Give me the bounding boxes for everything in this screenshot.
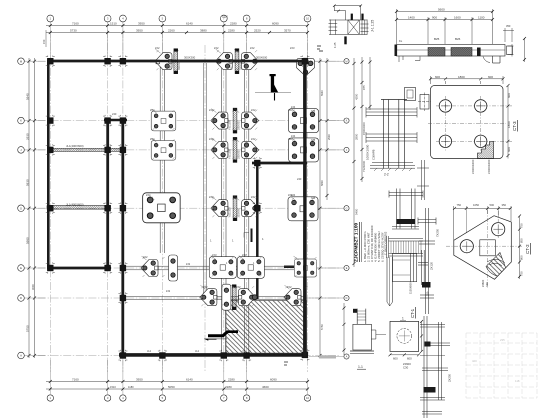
secondary col line [204, 45, 206, 372]
notch wall vertical [256, 163, 259, 299]
top-right beam detail [395, 8, 527, 64]
svg-text:ZJ2: ZJ2 [251, 137, 256, 141]
svg-text:1050: 1050 [473, 203, 479, 207]
svg-text:ZJ4: ZJ4 [291, 135, 296, 138]
wall pier section row A col 4 [174, 49, 178, 74]
pile cap ZJ1 row D [222, 284, 231, 310]
svg-text:5600: 5600 [438, 8, 445, 12]
column block 3 [118, 56, 127, 67]
notch wall horizontal [252, 162, 307, 165]
svg-text:1510: 1510 [110, 385, 116, 389]
svg-text:ZJ600X200: ZJ600X200 [471, 159, 475, 174]
column block 15 [118, 262, 127, 273]
dim ticks left [28, 60, 37, 357]
right dim [518, 215, 521, 280]
svg-text:150: 150 [42, 39, 46, 44]
beam row E [124, 266, 306, 270]
base [372, 162, 413, 164]
section C (left of pentagon) [418, 208, 440, 314]
pile cap ZJ2 row J col 5 [211, 141, 228, 158]
svg-text:350: 350 [506, 24, 511, 28]
svg-text:2X250: 2X250 [448, 373, 452, 382]
left dim lines [28, 58, 30, 358]
wall pier section row A col 5-6 [235, 49, 239, 74]
svg-text:6090: 6090 [270, 378, 277, 382]
pile cap ZJ4 row K col 10 [289, 109, 319, 133]
column block 8 [103, 144, 112, 155]
column block 7 [46, 144, 55, 155]
inner wall V2 [121, 119, 124, 357]
svg-text:YBZ1500: YBZ1500 [228, 119, 231, 130]
svg-text:ZJ2: ZJ2 [251, 195, 256, 199]
svg-text:300X900: 300X900 [237, 207, 240, 217]
pile cap ZJ4 row J col 10 [289, 138, 319, 162]
column block 1 [46, 56, 55, 67]
pile cap ZJ2 row A col 10 corner [297, 58, 315, 76]
svg-text:850: 850 [520, 238, 524, 243]
column block 22 [300, 56, 309, 67]
top dim lines [46, 25, 308, 27]
svg-text:ZJ3: ZJ3 [290, 46, 295, 50]
svg-text:JL1(400X600): JL1(400X600) [66, 144, 84, 148]
pile cap ZJ2 row G col 6 [242, 200, 259, 217]
bottom dim lines [46, 381, 309, 383]
column block 2 [103, 56, 112, 67]
svg-text:5980: 5980 [25, 237, 29, 244]
svg-text:3950: 3950 [136, 378, 143, 382]
grid row B [38, 120, 340, 122]
top extension lines from bubbles [50, 22, 307, 58]
left bubbles [18, 58, 25, 65]
right dim lines [319, 58, 321, 358]
section G (left column, between CT3 and CT2 zone) [417, 160, 429, 200]
svg-text:J-1 1:25: J-1 1:25 [371, 20, 375, 32]
dims around [429, 76, 510, 159]
svg-text:5830: 5830 [25, 179, 29, 186]
svg-text:YBZ1500: YBZ1500 [228, 148, 231, 159]
chords [329, 19, 367, 21]
pile cap ZJ4 row G col 4 [143, 193, 181, 223]
notch wall lower horizontal [284, 266, 305, 269]
column block 14 [103, 262, 112, 273]
svg-text:600: 600 [435, 75, 440, 79]
top bubbles [47, 15, 54, 22]
pile cap ZJ2 row A col 5 [215, 53, 232, 70]
CT-2 top dimension row [453, 203, 512, 240]
svg-text:1-1: 1-1 [358, 365, 363, 369]
svg-text:7160: 7160 [72, 378, 79, 382]
svg-text:KL: KL [399, 39, 403, 43]
beam F (beam-column joint section) [387, 236, 424, 258]
svg-text:ZJ2: ZJ2 [236, 285, 241, 289]
wall pier section row D [232, 285, 236, 310]
svg-text:300X900: 300X900 [239, 60, 242, 70]
grid row A [38, 60, 340, 62]
svg-text:YBZ1500: YBZ1500 [228, 207, 231, 218]
svg-text:300X900: 300X900 [237, 120, 240, 130]
svg-text:B25: B25 [434, 37, 440, 41]
svg-text:3000: 3000 [31, 284, 35, 290]
svg-text:300X900: 300X900 [237, 149, 240, 159]
svg-text:5050: 5050 [168, 385, 175, 389]
svg-text:E: E [20, 266, 22, 270]
svg-text:600: 600 [407, 357, 412, 361]
svg-text:1510: 1510 [110, 22, 117, 26]
svg-text:YBZ1500: YBZ1500 [169, 59, 172, 70]
svg-text:G: G [20, 206, 22, 210]
svg-text:JL2: JL2 [262, 350, 267, 353]
svg-text:CT-1: CT-1 [410, 308, 415, 318]
label for J1 [333, 20, 375, 48]
svg-text:CT-2: CT-2 [525, 244, 530, 254]
svg-text:A: A [20, 354, 22, 358]
bubble numerals [20, 17, 348, 401]
detail J1 X-brace (top middle) [317, 4, 369, 51]
svg-text:118: 118 [515, 379, 520, 383]
svg-text:600: 600 [507, 147, 511, 152]
grid col 7 [307, 30, 309, 372]
gray stub near plan bottom right [284, 355, 336, 365]
svg-text:2930: 2930 [327, 134, 331, 140]
svg-text:300X900: 300X900 [178, 60, 181, 70]
beam x205 [203, 63, 206, 296]
right bubbles [344, 59, 349, 64]
svg-text:ZJCPMBZT 1:100: ZJCPMBZT 1:100 [354, 222, 360, 262]
inner wall V1 [106, 119, 109, 270]
section arrow top [255, 74, 291, 101]
right wall [303, 60, 306, 357]
svg-text:C30: C30 [485, 282, 489, 287]
svg-text:ZJ2: ZJ2 [214, 46, 219, 50]
grid row E [38, 267, 340, 269]
svg-text:7X250: 7X250 [436, 228, 440, 237]
svg-text:2X120: 2X120 [430, 261, 434, 270]
column block 24 [253, 157, 262, 168]
top wall [47, 60, 309, 63]
column block 13 [46, 262, 55, 273]
svg-text:235: 235 [500, 338, 505, 342]
svg-text:500: 500 [490, 203, 495, 207]
column below beam F [387, 250, 430, 306]
svg-text:1180: 1180 [128, 385, 134, 389]
centerlines [446, 210, 523, 288]
svg-text:ZJ2: ZJ2 [186, 263, 191, 266]
room top hatched beam [47, 206, 111, 209]
tall section A [366, 100, 418, 177]
svg-text:ZJ2: ZJ2 [143, 255, 148, 259]
svg-text:ZJ600: ZJ600 [481, 279, 485, 287]
section D (bottom-left tall section) [420, 316, 452, 418]
svg-text:1000X1000: 1000X1000 [366, 144, 370, 160]
dim lines above [395, 9, 526, 62]
pile cap ZJ2 row A col 4 [155, 53, 172, 70]
svg-text:6140: 6140 [186, 378, 193, 382]
wall stub [251, 229, 253, 243]
svg-text:JL2: JL2 [147, 350, 152, 353]
svg-text:240: 240 [112, 112, 117, 116]
hatched beam row C left [50, 148, 108, 151]
column block 5 [103, 115, 112, 126]
svg-text:420: 420 [472, 359, 477, 363]
pile cap ZJ2 row D col 6 [238, 289, 255, 306]
small column squares S1 S2 [405, 88, 432, 112]
grid col 1 [49, 30, 51, 372]
svg-text:JL2: JL2 [195, 350, 200, 353]
svg-text:ZJ600X200: ZJ600X200 [487, 159, 491, 174]
notes text block (rotated) [354, 222, 388, 262]
V1-V2 tie wall [104, 119, 127, 122]
column block 18 [158, 350, 167, 361]
dim ticks right [319, 60, 329, 357]
svg-text:D: D [346, 297, 348, 300]
svg-text:5940: 5940 [320, 90, 324, 96]
svg-text:5940: 5940 [25, 93, 29, 100]
pile cap ZJ4 row J col 4 [151, 140, 176, 160]
svg-text:1: 1 [402, 317, 404, 321]
svg-text:300X600: 300X600 [256, 56, 268, 60]
svg-text:1800: 1800 [458, 75, 465, 79]
svg-text:300X300: 300X300 [184, 56, 196, 60]
left wall [47, 60, 50, 270]
svg-text:900: 900 [432, 16, 437, 20]
svg-text:600: 600 [393, 357, 398, 361]
svg-text:2280: 2280 [228, 378, 235, 382]
svg-text:2260: 2260 [168, 29, 175, 33]
column block 19 [219, 350, 228, 361]
pile cap ZJ2 row K col 5 [211, 112, 228, 129]
svg-text:5750: 5750 [25, 325, 29, 332]
svg-text:3950: 3950 [136, 29, 143, 33]
svg-text:4200: 4200 [354, 93, 358, 100]
pile cap ZJ4 row G col 10 [288, 197, 318, 221]
column block 23 [253, 203, 262, 214]
svg-text:240: 240 [297, 177, 302, 181]
beam row F [124, 296, 306, 299]
stair hatch corner [478, 142, 494, 159]
svg-text:CT-3: CT-3 [512, 121, 517, 131]
column block 16 [118, 292, 127, 303]
svg-text:800: 800 [520, 255, 524, 260]
column block 17 [118, 350, 127, 361]
column block 12 [118, 203, 127, 214]
X box [348, 20, 359, 34]
beam x162 [160, 63, 164, 253]
svg-text:3570: 3570 [284, 29, 291, 33]
svg-text:M: M [346, 60, 348, 63]
CT-1 square with circle [389, 307, 424, 370]
svg-text:350: 350 [502, 203, 507, 207]
svg-text:975: 975 [362, 85, 366, 90]
pile cap ZJ2 row D col 5a [200, 289, 217, 306]
column block 20 [242, 350, 251, 361]
dim ticks bottom [49, 380, 309, 391]
pile cap ZJ3 row E col 10 [294, 259, 317, 277]
svg-text:3880: 3880 [200, 29, 207, 33]
svg-text:2800: 2800 [354, 133, 358, 140]
section B [389, 189, 423, 230]
beam x246.5 [244, 63, 248, 354]
column block 6 [118, 115, 127, 126]
pile cap ZJ4 row K col 4 [151, 111, 176, 131]
svg-text:5120: 5120 [222, 15, 228, 19]
pile cap ZJ2 row D col 10 [284, 289, 301, 306]
svg-text:ZJ2: ZJ2 [250, 46, 255, 50]
CT-3 big pile cap plan [428, 75, 518, 174]
right wall over caps [303, 60, 306, 357]
svg-text:2-2: 2-2 [384, 173, 389, 177]
hatched beam row D left (room top is wall) [110, 148, 123, 151]
pile cap ZJ1 row E [169, 255, 178, 281]
svg-text:ZJ2: ZJ2 [287, 285, 292, 289]
column block 9 [118, 144, 127, 155]
svg-text:5400: 5400 [354, 208, 358, 215]
svg-text:2280: 2280 [230, 22, 237, 26]
grid col 3 [122, 30, 124, 372]
svg-text:600: 600 [488, 75, 493, 79]
svg-text:ZJ3: ZJ3 [212, 253, 217, 257]
svg-text:1400: 1400 [408, 16, 415, 20]
svg-text:5830: 5830 [320, 180, 324, 186]
right ladder [361, 20, 363, 35]
svg-text:2280: 2280 [228, 29, 235, 33]
svg-text:ZJ2: ZJ2 [203, 285, 208, 289]
pile cap ZJ2 row K col 6 [242, 112, 259, 129]
column block 4 [46, 115, 55, 126]
beam x223 [222, 63, 226, 354]
svg-text:ZJ3: ZJ3 [242, 253, 247, 257]
grid row C [38, 149, 340, 151]
svg-text:750: 750 [520, 223, 524, 228]
grid col 6 [246, 30, 248, 372]
pile cap ZJ3 row E col 6 [237, 257, 264, 279]
grid col 2 [107, 30, 109, 372]
svg-text:B26: B26 [455, 37, 461, 41]
svg-text:750: 750 [520, 271, 524, 276]
svg-text:JL1(400X600): JL1(400X600) [66, 203, 84, 207]
svg-text:2280: 2280 [225, 385, 232, 389]
svg-text:ZJ4: ZJ4 [291, 194, 296, 197]
svg-text:1800: 1800 [507, 121, 511, 128]
column block 10 [46, 203, 55, 214]
single pile row D [252, 295, 257, 300]
section arrow bottom (stepped) [204, 330, 238, 341]
svg-text:5730: 5730 [70, 29, 77, 33]
small flange pieces below-left [399, 56, 420, 62]
CT-2 pentagon pile cap [446, 210, 531, 288]
bottom bubbles [47, 395, 53, 401]
svg-text:1150X600: 1150X600 [409, 282, 413, 294]
walls redrawn over caps [150, 60, 309, 357]
grid row D [38, 207, 340, 209]
svg-text:712X600: 712X600 [362, 160, 366, 172]
pile cap ZJ2 row G col 5 [211, 200, 228, 217]
column block 21 [300, 349, 309, 360]
left ladder [329, 20, 331, 35]
black stubs [351, 14, 353, 20]
svg-text:250: 250 [426, 291, 430, 296]
column block 11 [103, 203, 112, 214]
T-bars [366, 108, 417, 110]
svg-text:1:25: 1:25 [333, 42, 337, 48]
pile cap ZJ2 row A col 6 [241, 53, 258, 70]
grid row G [38, 355, 340, 357]
svg-text:G: G [346, 207, 348, 210]
dim ticks top [49, 24, 309, 34]
svg-text:6090: 6090 [272, 22, 279, 26]
top wall over caps [150, 60, 309, 63]
grid row F [38, 297, 340, 299]
svg-text:600: 600 [507, 93, 511, 98]
svg-text:3950: 3950 [138, 22, 145, 26]
svg-text:10: 10 [306, 17, 310, 21]
pile cap ZJ2 row J col 6 [242, 141, 259, 158]
svg-text:1100: 1100 [478, 16, 485, 20]
svg-text:K: K [20, 119, 22, 123]
svg-text:ZJ2: ZJ2 [209, 137, 214, 141]
wall pier section row K [233, 108, 237, 133]
faint table bottom right [466, 333, 537, 398]
svg-text:7160: 7160 [72, 22, 79, 26]
pile cap ZJ2 row E col 4a [141, 260, 158, 277]
svg-text:1500X600: 1500X600 [362, 122, 366, 135]
svg-text:2930: 2930 [25, 133, 29, 140]
svg-text:D: D [20, 296, 22, 300]
vertical dim column x≈362 [353, 57, 372, 267]
svg-text:5750: 5750 [320, 324, 324, 330]
svg-text:C30HPB: C30HPB [372, 149, 376, 160]
svg-text:ZJ2: ZJ2 [166, 290, 171, 293]
svg-text:750: 750 [457, 203, 462, 207]
svg-text:1600: 1600 [454, 16, 461, 20]
wall pier section row J [233, 137, 237, 162]
svg-text:10: 10 [306, 396, 310, 400]
svg-text:4660: 4660 [262, 385, 269, 389]
room bottom wall [47, 267, 111, 270]
svg-text:2520: 2520 [254, 29, 261, 33]
left dim for box [343, 303, 346, 355]
grid col 5 [223, 30, 225, 372]
wall pier section row G [233, 196, 237, 221]
svg-text:6140: 6140 [186, 22, 193, 26]
section 1-1 box [343, 303, 387, 369]
svg-text:325: 325 [311, 139, 316, 142]
bottom wall [119, 353, 307, 357]
svg-text:C30: C30 [403, 366, 409, 370]
pile cap ZJ3 row E col 5 [209, 257, 236, 279]
svg-text:YBZ1500: YBZ1500 [230, 59, 233, 70]
grid col 4 [161, 30, 163, 372]
